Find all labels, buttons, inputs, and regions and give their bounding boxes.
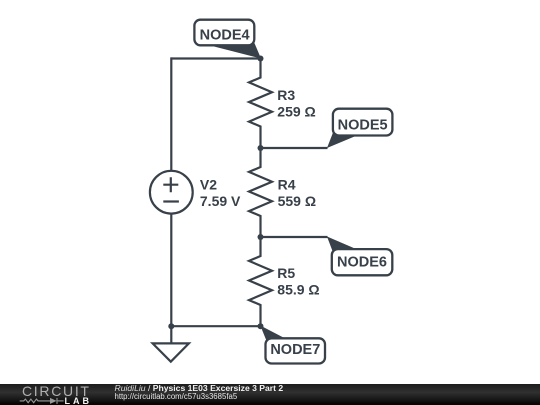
svg-text:259 Ω: 259 Ω <box>277 104 315 120</box>
svg-text:R4: R4 <box>278 176 296 192</box>
svg-text:NODE6: NODE6 <box>337 254 387 270</box>
wire node5 horizontal <box>261 147 328 149</box>
node junction dot ground <box>168 323 174 329</box>
footer bar <box>0 384 540 405</box>
resistor R5 <box>249 237 272 326</box>
logo wire + resistor zigzag <box>20 397 64 403</box>
label tail NODE6 <box>327 237 370 256</box>
svg-text:LAB: LAB <box>65 396 93 405</box>
svg-text:R5: R5 <box>277 265 295 281</box>
svg-text:85.9 Ω: 85.9 Ω <box>277 281 319 297</box>
V2 minus sign <box>163 200 179 202</box>
wire ground stem <box>170 326 172 343</box>
CircuitLab logo <box>0 384 110 405</box>
node junction dot NODE5 <box>258 145 264 151</box>
svg-text:R3: R3 <box>277 87 295 103</box>
node label NODE5 <box>333 109 393 136</box>
node label NODE7 <box>266 338 326 363</box>
ground symbol triangle <box>153 343 189 361</box>
voltage source V2 circle <box>150 171 193 214</box>
label tail NODE5 <box>327 130 370 148</box>
wire node6 horizontal <box>261 236 328 238</box>
V2 plus sign <box>163 177 178 192</box>
wire top horizontal <box>171 57 260 59</box>
wire bottom horizontal <box>171 325 260 327</box>
logo diode <box>50 397 57 403</box>
resistor R4 <box>249 148 272 237</box>
svg-text:NODE4: NODE4 <box>200 27 250 43</box>
resistor R3 <box>249 59 272 149</box>
node junction dot NODE7 <box>258 323 264 329</box>
svg-text:NODE5: NODE5 <box>338 118 388 134</box>
svg-text:V2: V2 <box>200 176 217 192</box>
node label NODE4 <box>194 20 254 46</box>
node label NODE6 <box>332 249 393 275</box>
svg-text:NODE7: NODE7 <box>270 342 320 358</box>
node junction dot NODE6 <box>258 234 264 240</box>
svg-text:7.59 V: 7.59 V <box>200 193 241 209</box>
footer title <box>115 384 284 393</box>
footer url <box>115 393 238 401</box>
label tail NODE7 <box>260 326 292 343</box>
node junction dot NODE4 <box>258 56 264 62</box>
label tail NODE4 <box>197 42 262 59</box>
svg-text:559 Ω: 559 Ω <box>278 193 316 209</box>
wire left vertical (top of V2) <box>170 57 172 170</box>
wire left vertical (bottom of V2) <box>170 215 172 327</box>
